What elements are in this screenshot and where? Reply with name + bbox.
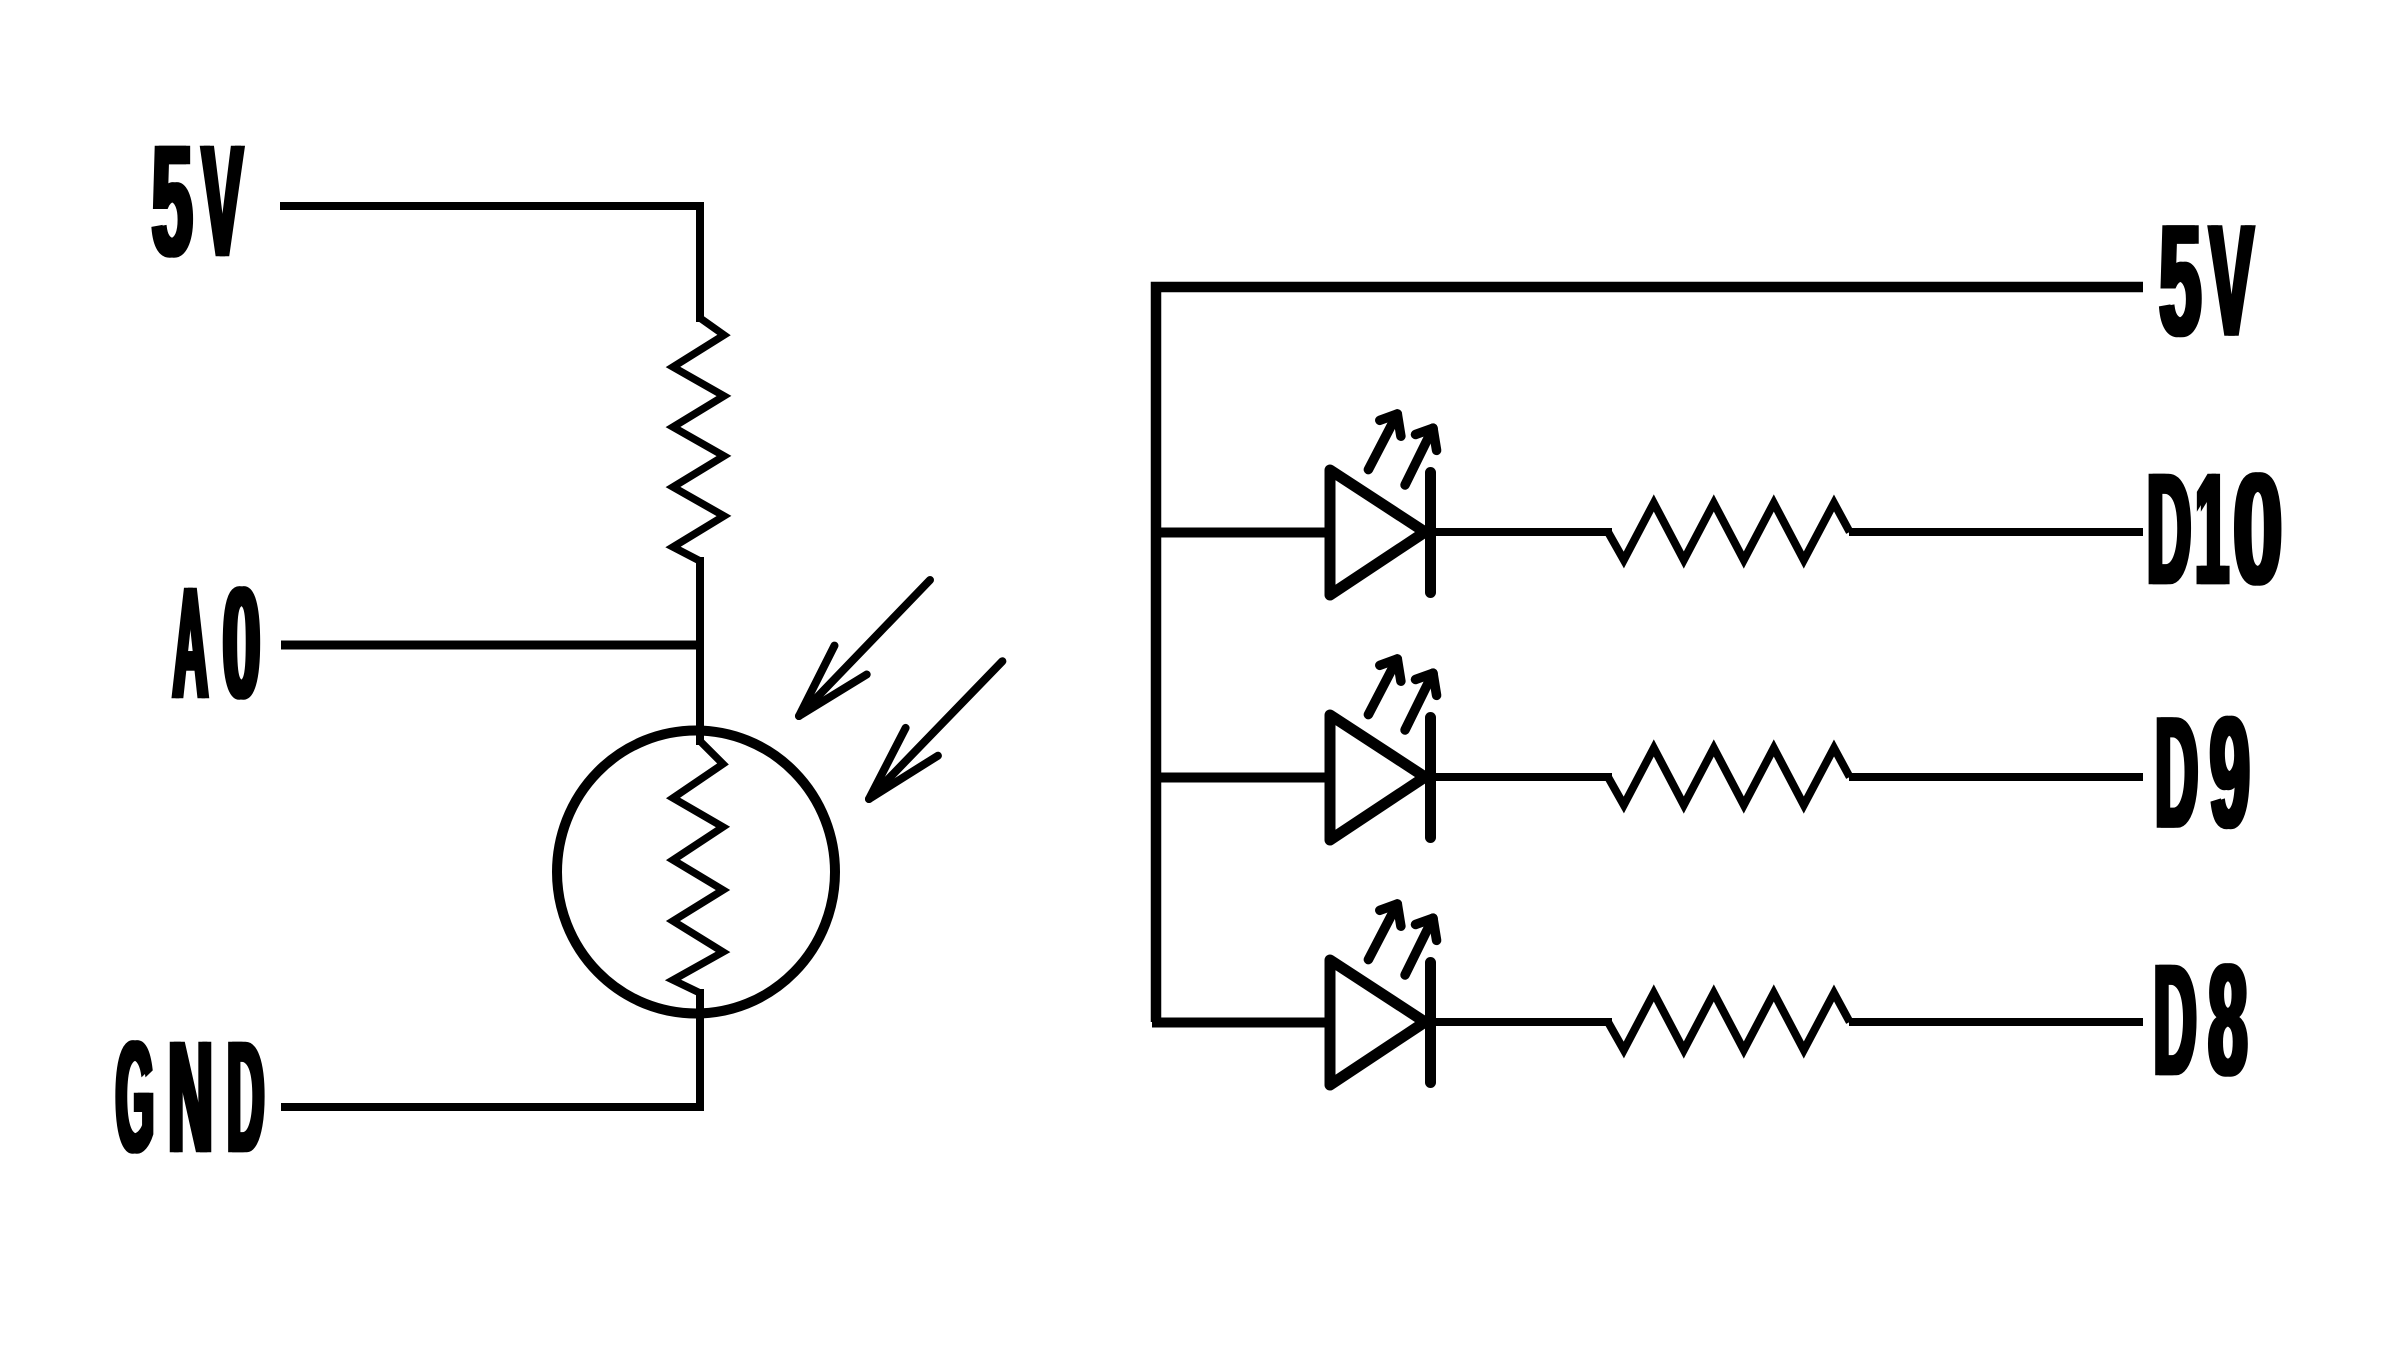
LED D10-LED emission arrow a: [1368, 414, 1401, 470]
wire R3 to D9: [1849, 773, 2143, 781]
LED D9-LED triangle: [1330, 715, 1425, 840]
LED D9-LED emission arrow b: [1405, 673, 1437, 730]
resistor R4: [1608, 993, 1850, 1050]
LED D8-LED cathode bar: [1425, 963, 1436, 1083]
wire LED2 to resistor R3: [1425, 773, 1612, 781]
LED D10-LED emission arrow b: [1405, 428, 1437, 485]
light arrow 1: [799, 580, 930, 716]
wire bus to LED3: [1152, 1018, 1330, 1028]
node D8: [2152, 932, 2250, 1108]
LED D10-LED cathode bar: [1425, 473, 1436, 593]
svg-text:0: 0: [225, 554, 263, 730]
photoresistor LDR1 zigzag element: [673, 741, 723, 993]
svg-text:9: 9: [2212, 684, 2252, 860]
svg-text:5: 5: [154, 113, 195, 289]
svg-text:8: 8: [2210, 932, 2249, 1108]
svg-text:G: G: [118, 1009, 156, 1184]
svg-text:D: D: [229, 1009, 266, 1185]
node D10: [2145, 441, 2284, 617]
wire photoresistor to GND: [281, 989, 700, 1107]
node A0: [171, 554, 263, 731]
wire A0: [281, 641, 700, 650]
LED D9-LED emission arrow a: [1368, 659, 1401, 715]
node 5V (right): [2157, 192, 2255, 369]
wire R4 to D8: [1849, 1018, 2143, 1026]
LED D10-LED triangle: [1330, 470, 1425, 595]
LED D8-LED triangle: [1330, 960, 1425, 1085]
LED D9-LED cathode bar: [1425, 718, 1436, 838]
svg-text:D: D: [2149, 442, 2193, 617]
svg-text:V: V: [204, 114, 245, 289]
LED D8-LED emission arrow b: [1405, 918, 1437, 975]
svg-text:N: N: [170, 1010, 215, 1185]
wire LED3 to resistor R4: [1425, 1018, 1612, 1026]
node D9: [2153, 684, 2252, 861]
resistor R1: [673, 318, 724, 561]
wire LED1 to resistor R2: [1425, 528, 1612, 536]
svg-text:V: V: [2212, 192, 2256, 368]
svg-text:D: D: [2157, 686, 2200, 861]
resistor R3: [1608, 748, 1850, 805]
wire bus to LED1: [1152, 528, 1330, 538]
LED D8-LED emission arrow a: [1368, 904, 1401, 960]
svg-text:D: D: [2156, 934, 2199, 1109]
node GND: [114, 1009, 267, 1186]
wire 5V to resistor R1: [280, 206, 700, 322]
wire R2 to D10: [1849, 528, 2143, 536]
photoresistor LDR1 circle: [557, 731, 835, 1014]
node 5V (left): [150, 113, 245, 290]
svg-text:1: 1: [2197, 442, 2231, 618]
svg-text:A: A: [175, 555, 210, 731]
wire bus to LED2: [1152, 773, 1330, 783]
svg-text:5: 5: [2161, 194, 2203, 369]
light arrow 2: [869, 661, 1002, 799]
wire 5V bus (right): [1156, 287, 2143, 1022]
resistor R2: [1608, 503, 1850, 560]
wire R1 to photoresistor: [696, 557, 704, 745]
svg-text:0: 0: [2235, 441, 2284, 616]
